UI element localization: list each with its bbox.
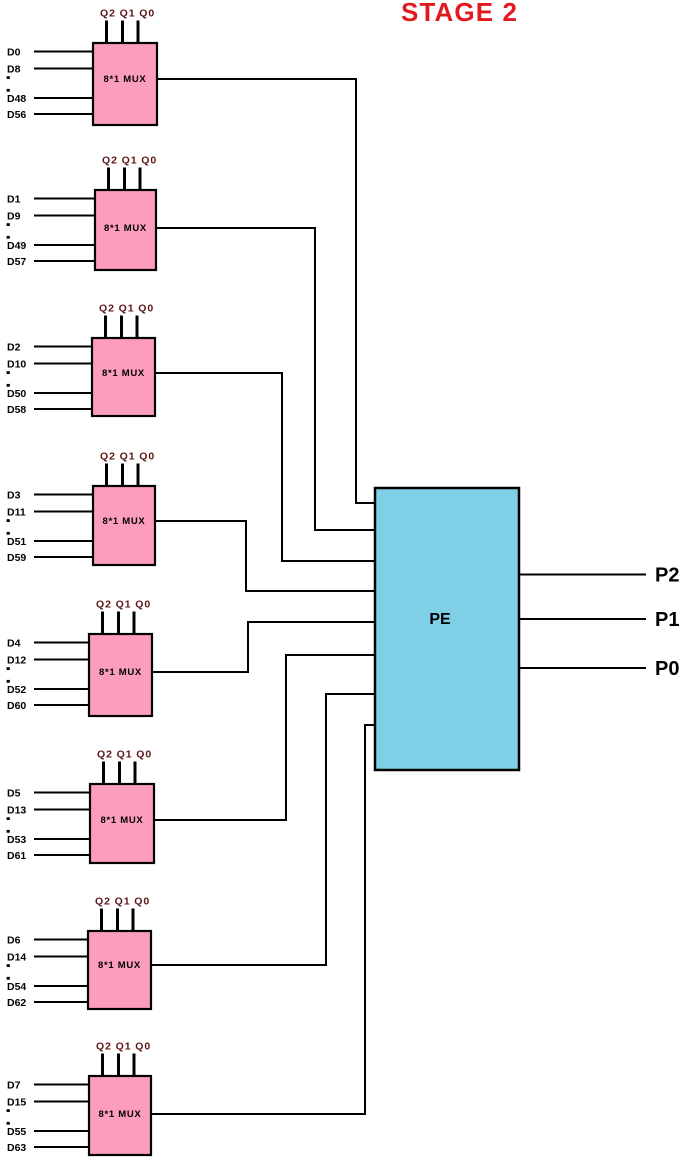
- mux U3 select lines Q2 Q1 Q0: [104, 316, 107, 339]
- svg-text:D60: D60: [7, 700, 26, 712]
- svg-text:D58: D58: [7, 404, 26, 416]
- wire mux U7 output to PE input 7: [151, 694, 376, 965]
- svg-text:D12: D12: [7, 655, 26, 667]
- svg-text:D55: D55: [7, 1126, 26, 1138]
- mux U7 body 8*1 MUX: [88, 931, 151, 1009]
- svg-text:P1: P1: [655, 609, 679, 631]
- mux U4 body 8*1 MUX: [93, 486, 155, 565]
- svg-text:8*1 MUX: 8*1 MUX: [103, 516, 146, 527]
- svg-text:D5: D5: [7, 788, 21, 800]
- svg-text:D4: D4: [7, 638, 21, 650]
- svg-text:D49: D49: [7, 240, 26, 252]
- svg-text:Q2 Q1 Q0: Q2 Q1 Q0: [95, 896, 150, 908]
- svg-text:D8: D8: [7, 64, 21, 76]
- svg-text:D59: D59: [7, 552, 26, 564]
- processing element PE: [375, 488, 519, 770]
- svg-text:D7: D7: [7, 1080, 21, 1092]
- mux U8 input wires: [34, 1084, 89, 1086]
- svg-text:D54: D54: [7, 981, 26, 993]
- svg-text:STAGE 2: STAGE 2: [401, 0, 518, 27]
- svg-text:D2: D2: [7, 342, 21, 354]
- mux U2 select lines Q2 Q1 Q0: [107, 168, 110, 191]
- svg-text:P2: P2: [655, 565, 679, 587]
- svg-text:Q2 Q1 Q0: Q2 Q1 Q0: [100, 8, 155, 20]
- mux U2 ellipsis dots: [7, 223, 10, 226]
- mux U7 ellipsis dots: [7, 964, 10, 967]
- svg-text:D57: D57: [7, 256, 26, 268]
- mux U3 body 8*1 MUX: [92, 338, 155, 416]
- mux U6 input wires: [34, 792, 90, 794]
- mux U4 select lines Q2 Q1 Q0: [105, 464, 108, 487]
- svg-text:D51: D51: [7, 536, 26, 548]
- svg-text:8*1 MUX: 8*1 MUX: [98, 960, 141, 971]
- wire mux U5 output to PE input 5: [152, 622, 376, 672]
- svg-text:D53: D53: [7, 834, 26, 846]
- svg-text:D14: D14: [7, 952, 26, 964]
- svg-text:D15: D15: [7, 1097, 26, 1109]
- mux U6 body 8*1 MUX: [90, 784, 154, 863]
- mux U5 select lines Q2 Q1 Q0: [101, 612, 104, 635]
- svg-text:Q2 Q1 Q0: Q2 Q1 Q0: [102, 155, 157, 167]
- mux U5 ellipsis dots: [7, 667, 10, 670]
- svg-text:Q2 Q1 Q0: Q2 Q1 Q0: [96, 1041, 151, 1053]
- svg-text:D52: D52: [7, 684, 26, 696]
- wire mux U6 output to PE input 6: [154, 655, 376, 820]
- mux U8 body 8*1 MUX: [89, 1076, 151, 1155]
- svg-text:Q2 Q1 Q0: Q2 Q1 Q0: [100, 451, 155, 463]
- svg-text:D11: D11: [7, 507, 26, 519]
- mux U4 ellipsis dots: [7, 519, 10, 522]
- mux U7 input wires: [34, 939, 88, 941]
- wire mux U4 output to PE input 4: [155, 521, 376, 591]
- svg-text:D6: D6: [7, 935, 21, 947]
- svg-text:D48: D48: [7, 93, 26, 105]
- svg-text:8*1 MUX: 8*1 MUX: [102, 368, 145, 379]
- mux U6 ellipsis dots: [7, 817, 10, 820]
- svg-text:8*1 MUX: 8*1 MUX: [104, 74, 147, 85]
- mux U1 body 8*1 MUX: [93, 43, 157, 125]
- mux U2 input wires: [34, 198, 95, 200]
- mux U5 body 8*1 MUX: [89, 634, 152, 716]
- wire PE output P0: [520, 667, 646, 669]
- svg-text:D62: D62: [7, 997, 26, 1009]
- wire PE output P1: [520, 618, 646, 620]
- svg-text:D3: D3: [7, 490, 21, 502]
- mux U3 input wires: [34, 346, 92, 348]
- svg-text:Q2 Q1 Q0: Q2 Q1 Q0: [96, 599, 151, 611]
- mux U5 input wires: [34, 642, 89, 644]
- mux U3 ellipsis dots: [7, 371, 10, 374]
- svg-text:D61: D61: [7, 850, 26, 862]
- svg-text:8*1 MUX: 8*1 MUX: [99, 667, 142, 678]
- wire mux U1 output to PE input 1: [157, 79, 376, 503]
- svg-text:D1: D1: [7, 194, 21, 206]
- svg-text:D50: D50: [7, 388, 26, 400]
- wire mux U3 output to PE input 3: [155, 373, 376, 561]
- mux U1 ellipsis dots: [7, 76, 10, 79]
- svg-text:D56: D56: [7, 109, 26, 121]
- mux U8 ellipsis dots: [7, 1109, 10, 1112]
- svg-text:8*1 MUX: 8*1 MUX: [104, 223, 147, 234]
- wire mux U8 output to PE input 8: [151, 725, 376, 1114]
- wire mux U2 output to PE input 2: [156, 228, 376, 530]
- mux U1 input wires: [34, 51, 93, 53]
- svg-text:D63: D63: [7, 1142, 26, 1154]
- wire PE output P2: [520, 574, 646, 576]
- mux U4 input wires: [34, 494, 93, 496]
- svg-text:Q2 Q1 Q0: Q2 Q1 Q0: [97, 749, 152, 761]
- mux U7 select lines Q2 Q1 Q0: [100, 909, 103, 932]
- svg-text:8*1 MUX: 8*1 MUX: [99, 1109, 142, 1120]
- svg-text:8*1 MUX: 8*1 MUX: [101, 815, 144, 826]
- mux U8 select lines Q2 Q1 Q0: [101, 1054, 104, 1077]
- svg-text:PE: PE: [429, 611, 451, 628]
- svg-text:D10: D10: [7, 359, 26, 371]
- svg-text:D0: D0: [7, 47, 21, 59]
- mux U1 select lines Q2 Q1 Q0: [105, 21, 108, 44]
- svg-text:D9: D9: [7, 211, 21, 223]
- svg-text:D13: D13: [7, 805, 26, 817]
- svg-text:Q2 Q1 Q0: Q2 Q1 Q0: [99, 303, 154, 315]
- mux U6 select lines Q2 Q1 Q0: [102, 762, 105, 785]
- mux U2 body 8*1 MUX: [95, 190, 156, 270]
- svg-text:P0: P0: [655, 658, 679, 680]
